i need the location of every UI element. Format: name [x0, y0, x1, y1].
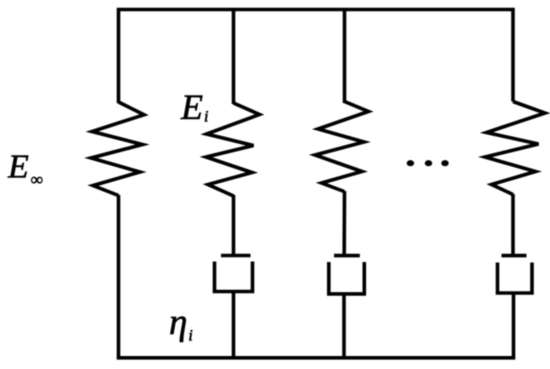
spring E_inf branch1 — [91, 102, 144, 196]
wire branch3 top — [343, 10, 347, 104]
svg-text:ηi: ηi — [169, 302, 193, 345]
wire branch3 spring to dashpot — [342, 191, 346, 256]
dashpot branch2 cup — [215, 262, 253, 292]
svg-text:Ei: Ei — [180, 87, 208, 127]
wire branch4 spring to dashpot — [511, 194, 515, 256]
wire branch2 top — [232, 10, 236, 105]
spring branch4 — [485, 102, 545, 195]
ellipsis dots node — [407, 160, 449, 166]
spring branch3 — [315, 102, 369, 192]
wire branch2 bottom — [232, 292, 236, 358]
svg-text:E∞: E∞ — [7, 149, 43, 190]
dashpot branch4 cup — [498, 263, 533, 294]
wire branch2 spring to dashpot — [232, 195, 236, 256]
dashpot branch4 piston bar — [502, 254, 527, 258]
dashpot branch3 piston bar — [334, 254, 360, 258]
wire top horizontal — [119, 10, 514, 104]
dashpot branch2 piston bar — [221, 254, 251, 258]
wire branch3 bottom — [342, 294, 346, 357]
wire bottom horizontal — [119, 195, 514, 358]
dashpot branch3 cup — [329, 262, 365, 294]
spring E_i branch2 — [206, 103, 260, 196]
